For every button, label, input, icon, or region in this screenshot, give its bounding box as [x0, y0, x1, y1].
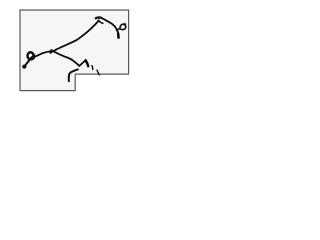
background [0, 0, 150, 99]
enclosure border (stepped box outline) [20, 10, 129, 91]
wire branch A (node J up to arrow) [50, 20, 99, 53]
inductor L2 loop (top-right component) [117, 24, 126, 30]
hook stroke at step corner [69, 69, 78, 81]
branch B end stroke [86, 60, 89, 66]
arrowhead barb upper [96, 16, 102, 19]
tick crossing lower border [97, 70, 99, 75]
comma mark near branch B end [91, 66, 94, 70]
wire from arrow down to transistor Q1 [101, 18, 118, 34]
arrowhead barb lower [99, 21, 103, 23]
transistor Q1 lead foot [117, 34, 120, 38]
node A terminal dot [22, 65, 26, 69]
wire branch B (node J down-right) [51, 50, 85, 66]
L2 tail tick [124, 24, 127, 27]
wire from L1 to node J [35, 51, 53, 56]
inductor L1 loop (bottom-left component squiggle) [25, 55, 34, 65]
